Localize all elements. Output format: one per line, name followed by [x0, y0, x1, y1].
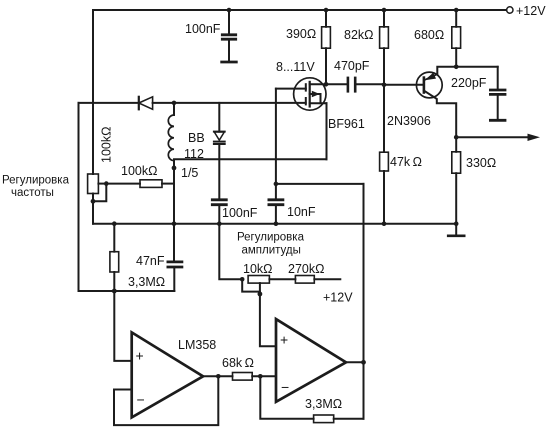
svg-text:BF961: BF961 — [328, 117, 365, 131]
capacitor C 47nF — [168, 224, 182, 291]
node 390 at rail — [324, 8, 329, 13]
terminal +12V circle — [507, 7, 513, 13]
svg-text:680Ω: 680Ω — [414, 28, 444, 42]
capacitor C 220pF — [456, 67, 505, 121]
node opamp1 output — [216, 374, 221, 379]
node top of 100nF — [227, 8, 232, 13]
node 3.3M/47nF junction — [112, 289, 117, 294]
resistor R 390ohm — [322, 10, 331, 84]
resistor R 68k — [203, 373, 276, 381]
svg-text:амплитуды: амплитуды — [242, 245, 301, 257]
node emitter/680 — [454, 65, 459, 70]
wire output with arrow — [456, 136, 529, 138]
wire gate2 line with diode — [79, 102, 306, 104]
svg-text:100nF: 100nF — [222, 206, 258, 220]
svg-text:2N3906: 2N3906 — [387, 114, 431, 128]
wire coil tap line — [174, 158, 327, 160]
varactor BB112 — [214, 103, 225, 199]
svg-text:47nF: 47nF — [136, 254, 165, 268]
svg-text:10kΩ: 10kΩ — [243, 262, 273, 276]
wire opamp1 minus feedback loop — [114, 376, 218, 425]
resistor R 100k horizontal — [106, 180, 174, 188]
node rail 100nF — [217, 221, 222, 226]
svg-text:470pF: 470pF — [334, 59, 370, 73]
node opamp2 minus — [258, 374, 263, 379]
wire source drop — [326, 103, 328, 159]
resistor R 270k — [269, 276, 340, 284]
resistor R 47k — [380, 152, 389, 224]
node 470p/base — [382, 83, 387, 88]
resistor R 330ohm — [452, 137, 461, 223]
transistor Q 2N3906 — [384, 67, 456, 138]
capacitor C 10nF — [269, 184, 283, 224]
svg-text:LM358: LM358 — [178, 338, 216, 352]
svg-text:+: + — [280, 332, 288, 348]
svg-text:+12V: +12V — [516, 4, 546, 18]
wire ground rail — [93, 223, 456, 225]
svg-text:100kΩ: 100kΩ — [100, 127, 114, 163]
ground symbol — [448, 224, 464, 236]
diode D1 — [139, 97, 153, 110]
svg-text:Регулировка: Регулировка — [2, 175, 70, 187]
capacitor C 100nF top — [222, 10, 237, 62]
resistor R 3.3M feedback — [260, 376, 363, 422]
node pot wiper — [258, 292, 263, 297]
node rail 3.3M — [112, 221, 117, 226]
svg-text:−: − — [281, 379, 289, 395]
wire left drop from rail to pot — [92, 10, 94, 174]
node rail 47k — [382, 221, 387, 226]
node pot left — [240, 277, 245, 282]
wire node down to opamp1 plus — [114, 291, 131, 361]
node collector/330/output — [454, 135, 459, 140]
capacitor C 470pF — [326, 78, 384, 91]
opamp U2 LM358 — [276, 319, 346, 402]
resistor R 680ohm — [452, 10, 461, 67]
potentiometer R 100k frequency — [88, 174, 107, 224]
svg-text:220pF: 220pF — [451, 76, 487, 90]
svg-text:1/5: 1/5 — [181, 166, 198, 180]
potentiometer R 10k amplitude — [242, 276, 269, 295]
svg-text:112: 112 — [184, 147, 204, 161]
svg-text:Регулировка: Регулировка — [237, 232, 305, 244]
wire agc line to opamp2 output — [276, 183, 364, 185]
svg-text:8...11V: 8...11V — [276, 60, 315, 74]
capacitor C 100nF middle — [212, 200, 226, 224]
wire top +12V rail — [93, 9, 506, 11]
svg-text:+12V: +12V — [323, 291, 353, 305]
svg-text:BB: BB — [188, 131, 205, 145]
node opamp2 output — [361, 360, 366, 365]
resistor R 3.3M left — [110, 224, 119, 291]
svg-text:100kΩ: 100kΩ — [121, 164, 157, 178]
node drain — [324, 82, 329, 87]
wire node to 47nF — [114, 290, 174, 292]
wire amplitude pot feed — [219, 224, 242, 280]
svg-text:330Ω: 330Ω — [466, 156, 496, 170]
svg-text:270kΩ: 270kΩ — [288, 262, 324, 276]
wire opamp2 output column — [363, 184, 365, 419]
svg-text:10nF: 10nF — [287, 205, 316, 219]
node rail ground — [454, 221, 459, 226]
svg-text:частоты: частоты — [11, 187, 54, 199]
svg-text:68k Ω: 68k Ω — [222, 356, 254, 370]
svg-text:+: + — [136, 348, 144, 364]
node 82k at rail — [382, 8, 387, 13]
node rail 10nF — [274, 221, 279, 226]
wire opamp2 output — [346, 361, 364, 363]
svg-text:390Ω: 390Ω — [286, 27, 316, 41]
svg-text:100nF: 100nF — [185, 22, 221, 36]
transistor U mosfet BF961 — [276, 78, 327, 110]
svg-text:3,3МΩ: 3,3МΩ — [128, 275, 165, 289]
node coil bottom tap — [172, 166, 177, 171]
node rail coil — [172, 221, 177, 226]
wire left feedback column — [79, 103, 115, 291]
wire pot wiper to opamp2 plus — [260, 294, 276, 346]
inductor L1 tapped coil — [168, 103, 174, 224]
resistor R 82k — [380, 10, 389, 152]
svg-text:47k Ω: 47k Ω — [390, 155, 422, 169]
wire gate1 drop — [275, 89, 277, 184]
svg-text:3,3МΩ: 3,3МΩ — [305, 397, 342, 411]
node 680 at rail — [454, 8, 459, 13]
svg-text:82kΩ: 82kΩ — [344, 28, 374, 42]
opamp U1 LM358 — [132, 332, 203, 417]
svg-text:−: − — [137, 392, 145, 408]
node coil top — [172, 101, 177, 106]
